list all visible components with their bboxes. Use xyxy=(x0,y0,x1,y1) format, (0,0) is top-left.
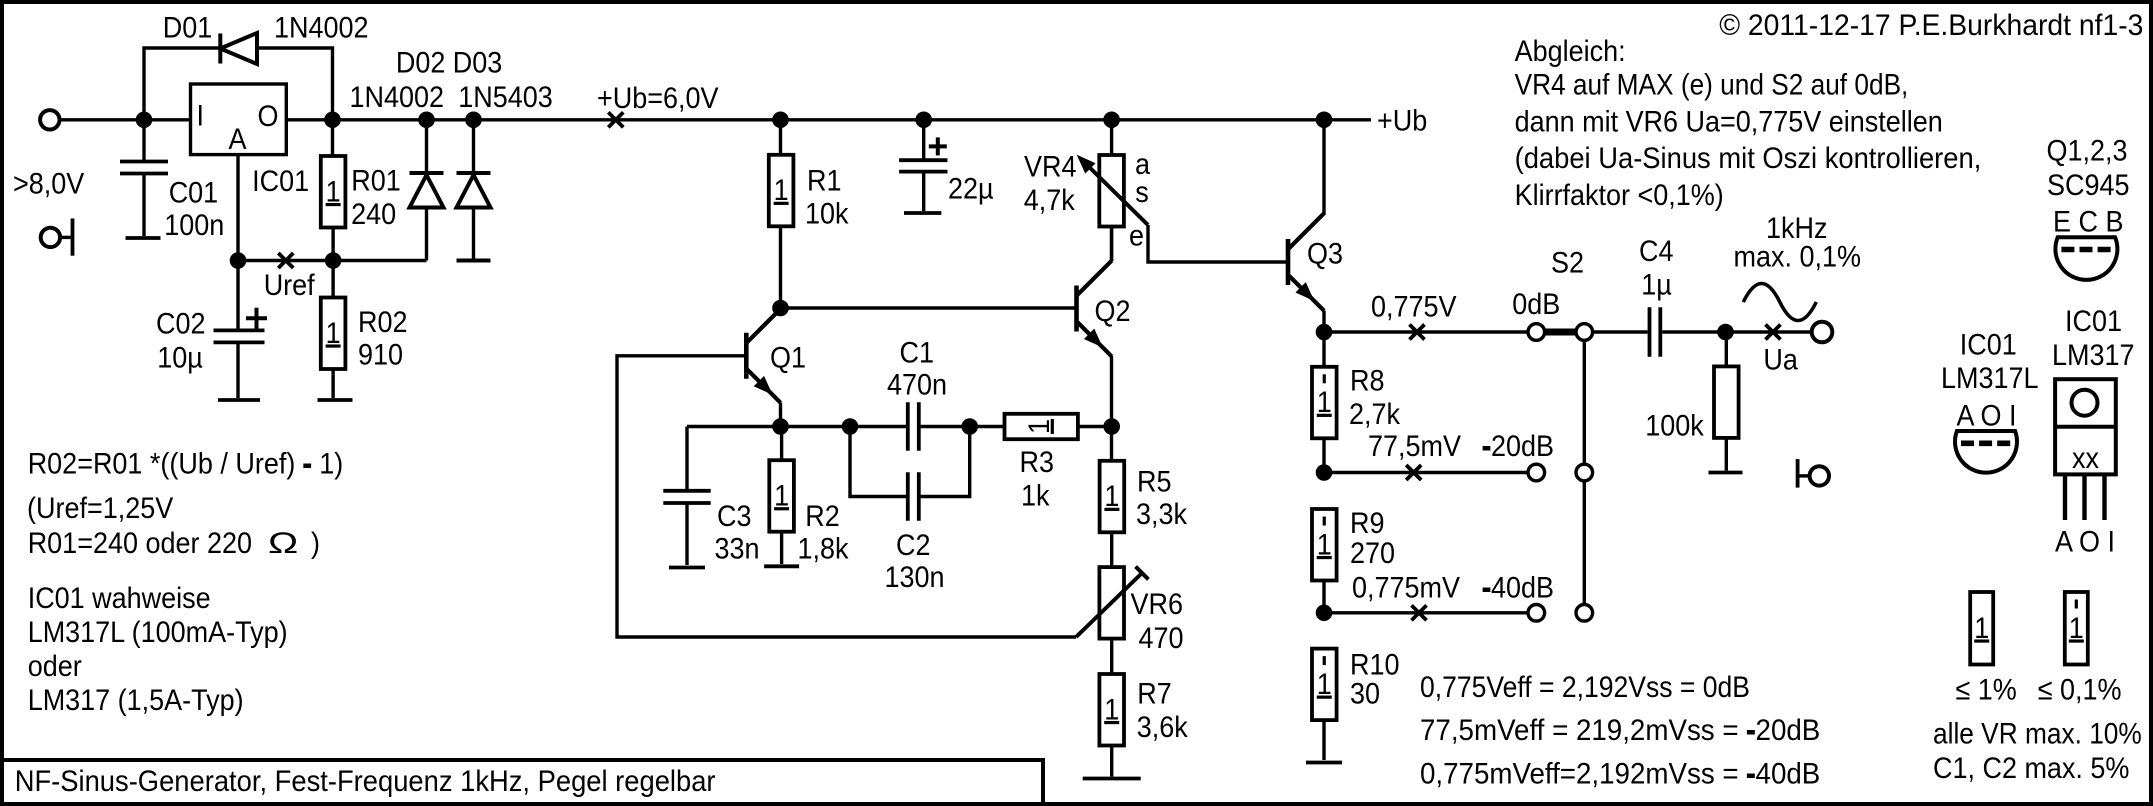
svg-text:R02=R01 *((Ub / Uref) - 1): R02=R01 *((Ub / Uref) - 1) xyxy=(28,447,344,481)
svg-text:2,7k: 2,7k xyxy=(1349,398,1401,432)
svg-text:10µ: 10µ xyxy=(157,341,203,375)
svg-text:0dB: 0dB xyxy=(1512,288,1560,322)
svg-text:Q2: Q2 xyxy=(1095,295,1131,329)
svg-text:Uref: Uref xyxy=(264,269,315,303)
resistor 100k xyxy=(1725,332,1728,366)
svg-text:1k: 1k xyxy=(1021,479,1050,513)
svg-text:VR4 auf MAX (e) und S2 auf 0dB: VR4 auf MAX (e) und S2 auf 0dB, xyxy=(1515,67,1909,101)
svg-text:77,5mV: 77,5mV xyxy=(1368,430,1461,464)
resistor R02 xyxy=(321,298,346,370)
svg-text:(Uref=1,25V: (Uref=1,25V xyxy=(27,492,173,526)
svg-text:Ua: Ua xyxy=(1763,343,1798,377)
svg-text:Q1,2,3: Q1,2,3 xyxy=(2047,134,2128,168)
TO-92 package (Q) xyxy=(2055,237,2117,280)
capacitor C02 xyxy=(236,261,239,330)
capacitor C3 xyxy=(685,427,688,491)
svg-text:D02: D02 xyxy=(396,46,445,80)
node (R1 bottom / Q1 collector) xyxy=(773,300,789,316)
resistor R8 xyxy=(1312,367,1337,439)
svg-text:30: 30 xyxy=(1350,677,1380,711)
svg-text:R02: R02 xyxy=(358,306,407,340)
resistor R1 xyxy=(779,120,782,155)
legend resistor 0,1% xyxy=(2065,592,2088,665)
node xyxy=(1104,112,1120,128)
svg-text:33n: 33n xyxy=(715,532,760,566)
input terminal + xyxy=(40,110,59,129)
svg-text:O: O xyxy=(258,100,279,134)
svg-text:22µ: 22µ xyxy=(948,172,994,206)
node xyxy=(419,112,435,128)
S2 bus xyxy=(1583,332,1586,613)
node xyxy=(325,112,341,128)
wire Uref xyxy=(238,259,427,262)
svg-text:0,775mVeff=2,192mVss = -40dB: 0,775mVeff=2,192mVss = -40dB xyxy=(1420,758,1820,791)
switch S2 xyxy=(1545,329,1576,336)
svg-text:IC01: IC01 xyxy=(1960,328,2017,362)
VR4 wiper arrow xyxy=(1081,159,1148,225)
svg-text:S2: S2 xyxy=(1551,246,1584,280)
svg-text:C1: C1 xyxy=(900,336,934,370)
wire: +Ub rail xyxy=(60,118,1372,121)
svg-text:3,3k: 3,3k xyxy=(1136,498,1188,532)
capacitor C01 xyxy=(142,120,145,162)
measurement point +Ub xyxy=(608,112,623,127)
transistor Q2 xyxy=(1074,286,1079,332)
svg-text:R1: R1 xyxy=(807,164,841,198)
svg-text:dann mit VR6 Ua=0,775V einstel: dann mit VR6 Ua=0,775V einstellen xyxy=(1515,105,1943,139)
svg-text:0,775V: 0,775V xyxy=(1371,290,1457,324)
capacitor C4 xyxy=(1593,330,1648,333)
svg-text:1N5403: 1N5403 xyxy=(458,81,553,115)
svg-text:D01: D01 xyxy=(163,11,212,45)
svg-text:oder: oder xyxy=(28,650,82,684)
svg-text:C3: C3 xyxy=(717,500,751,534)
svg-text:77,5mVeff = 219,2mVss = -20dB: 77,5mVeff = 219,2mVss = -20dB xyxy=(1420,714,1820,747)
wire 77,5mV xyxy=(1324,471,1528,474)
ground (R7) xyxy=(1083,777,1141,781)
svg-text:R9: R9 xyxy=(1350,507,1384,541)
ground (22µ) xyxy=(904,211,941,215)
node -20dB tap xyxy=(1316,465,1332,481)
wire 0,775V xyxy=(1324,330,1528,333)
svg-text:xx: xx xyxy=(2072,442,2099,476)
svg-text:470n: 470n xyxy=(887,368,947,402)
ground (C01) xyxy=(126,236,161,240)
ground (R10) xyxy=(1306,761,1342,765)
output terminal return xyxy=(1810,466,1829,485)
sine symbol 1kHz xyxy=(1743,284,1816,321)
node xyxy=(136,112,152,128)
ground (C3) xyxy=(669,566,705,570)
svg-text:C2: C2 xyxy=(896,529,930,563)
resistor R2 xyxy=(780,427,783,461)
svg-text:VR6: VR6 xyxy=(1131,588,1183,622)
node Q3 emitter xyxy=(1316,324,1332,340)
VR6 wiper xyxy=(1076,573,1142,637)
node xyxy=(466,112,482,128)
resistor R9 xyxy=(1312,509,1337,581)
potentiometer VR4 xyxy=(1110,120,1113,155)
svg-text:R7: R7 xyxy=(1137,677,1171,711)
node R3 right xyxy=(1104,419,1120,435)
resistor R5 xyxy=(1100,461,1125,533)
svg-text:A O I: A O I xyxy=(2055,525,2115,559)
svg-text:100k: 100k xyxy=(1645,409,1704,443)
node -40dB tap xyxy=(1316,605,1332,621)
svg-text:LM317L: LM317L xyxy=(1941,362,2039,396)
transistor Q1 xyxy=(744,333,749,379)
svg-text:1,8k: 1,8k xyxy=(798,532,850,566)
ground (R02) xyxy=(318,398,353,402)
ground (C02) xyxy=(218,398,260,402)
svg-text:IC01: IC01 xyxy=(2065,305,2122,339)
svg-text:R8: R8 xyxy=(1350,364,1384,398)
svg-text:C01: C01 xyxy=(169,176,218,210)
node output xyxy=(1718,324,1734,340)
svg-text:240: 240 xyxy=(351,198,396,232)
resistor R01 xyxy=(331,120,334,156)
node C1/C2 left xyxy=(842,419,858,435)
wire to Ua xyxy=(1726,330,1813,333)
svg-text:I: I xyxy=(197,99,205,133)
svg-text:s: s xyxy=(1135,176,1148,210)
svg-text:910: 910 xyxy=(358,338,403,372)
svg-text:1N4002: 1N4002 xyxy=(274,11,369,45)
node Q1 emitter xyxy=(773,419,789,435)
measurement point Uref xyxy=(278,253,293,268)
svg-text:4,7k: 4,7k xyxy=(1024,184,1076,218)
svg-text:-20dB: -20dB xyxy=(1482,430,1554,464)
potentiometer VR6 xyxy=(1110,532,1113,567)
ground (R2) xyxy=(764,564,799,568)
transistor Q3 xyxy=(1286,239,1291,285)
svg-text:>8,0V: >8,0V xyxy=(13,167,84,201)
svg-text:Klirrfaktor <0,1%): Klirrfaktor <0,1%) xyxy=(1515,179,1724,213)
resistor R10 xyxy=(1312,649,1337,721)
diode D01 xyxy=(218,34,222,64)
svg-text:Ω: Ω xyxy=(268,526,298,560)
svg-text:R01=240 oder 220: R01=240 oder 220 xyxy=(28,527,252,561)
svg-text:Abgleich:: Abgleich: xyxy=(1515,35,1626,69)
svg-text:Q1: Q1 xyxy=(770,341,806,375)
svg-text:R5: R5 xyxy=(1137,465,1171,499)
svg-text:C02: C02 xyxy=(156,307,205,341)
diode D03 xyxy=(472,120,475,173)
node xyxy=(773,112,789,128)
svg-text:R2: R2 xyxy=(805,500,839,534)
svg-text:-40dB: -40dB xyxy=(1482,571,1554,605)
svg-text:IC01: IC01 xyxy=(252,165,309,199)
svg-text:SC945: SC945 xyxy=(2047,169,2129,203)
diode D02 xyxy=(425,120,428,173)
svg-text:10k: 10k xyxy=(805,197,849,231)
svg-text:1N4002: 1N4002 xyxy=(350,81,445,115)
node R01/Uref xyxy=(325,253,341,269)
output terminal Ua xyxy=(1812,322,1833,343)
svg-text:R3: R3 xyxy=(1020,446,1054,480)
title box xyxy=(2,760,1043,804)
svg-text:130n: 130n xyxy=(885,561,945,595)
ground (100k) xyxy=(1709,471,1743,475)
svg-text:D03: D03 xyxy=(453,46,502,80)
svg-text:1µ: 1µ xyxy=(1641,268,1672,302)
svg-text:≤ 0,1%: ≤ 0,1% xyxy=(2038,673,2122,707)
svg-text:0,775Veff = 2,192Vss = 0dB: 0,775Veff = 2,192Vss = 0dB xyxy=(1420,671,1750,705)
resistor R3 xyxy=(1005,414,1078,439)
svg-text:C1, C2 max. 5%: C1, C2 max. 5% xyxy=(1933,752,2129,786)
wire D01 loop xyxy=(144,48,333,120)
node xyxy=(1316,112,1332,128)
TO-92 package (LM317L) xyxy=(1955,431,2017,473)
svg-text:VR4: VR4 xyxy=(1024,150,1077,184)
svg-text:IC01 wahweise: IC01 wahweise xyxy=(28,582,211,616)
input terminal return xyxy=(41,228,60,247)
svg-text:): ) xyxy=(311,527,320,561)
capacitor 22µ xyxy=(922,120,925,160)
wire Q1 base feedback xyxy=(617,356,1076,637)
legend resistor 1% xyxy=(1970,592,1993,665)
svg-text:+Ub=6,0V: +Ub=6,0V xyxy=(597,82,718,116)
svg-text:C4: C4 xyxy=(1639,235,1674,269)
wire A pin xyxy=(236,155,239,261)
svg-text:100n: 100n xyxy=(164,209,224,243)
svg-text:NF-Sinus-Generator, Fest-Frequ: NF-Sinus-Generator, Fest-Frequenz 1kHz, … xyxy=(15,765,716,798)
capacitor C2 xyxy=(850,427,908,497)
capacitor C1 xyxy=(906,402,910,451)
TO-220 package (LM317) xyxy=(2055,379,2116,474)
svg-text:470: 470 xyxy=(1139,622,1184,656)
node Uref-A xyxy=(230,253,246,269)
svg-text:(dabei Ua-Sinus mit Oszi kontr: (dabei Ua-Sinus mit Oszi kontrollieren, xyxy=(1515,142,1982,175)
svg-text:0,775mV: 0,775mV xyxy=(1352,571,1460,605)
wire 0,775mV xyxy=(1324,611,1528,614)
svg-text:alle VR max. 10%: alle VR max. 10% xyxy=(1933,716,2142,750)
svg-text:LM317 (1,5A-Typ): LM317 (1,5A-Typ) xyxy=(28,684,244,718)
svg-text:E C B: E C B xyxy=(2053,205,2123,239)
svg-text:≤ 1%: ≤ 1% xyxy=(1956,673,2017,707)
svg-text:LM317: LM317 xyxy=(2052,339,2134,373)
node xyxy=(916,112,932,128)
svg-text:max. 0,1%: max. 0,1% xyxy=(1734,240,1861,274)
svg-text:270: 270 xyxy=(1350,537,1395,571)
svg-text:© 2011-12-17 P.E.Burkhardt nf1: © 2011-12-17 P.E.Burkhardt nf1-3 xyxy=(1719,9,2143,42)
wire Q2 base xyxy=(781,306,1077,309)
resistor R7 xyxy=(1099,674,1124,746)
svg-text:A: A xyxy=(229,123,247,157)
node C1/C2 right xyxy=(962,419,978,435)
wire emitter line xyxy=(687,425,908,428)
svg-text:e: e xyxy=(1129,219,1144,253)
svg-text:Q3: Q3 xyxy=(1307,237,1343,271)
svg-text:+Ub: +Ub xyxy=(1377,104,1427,138)
op-amp/regulator IC01 box xyxy=(191,84,287,155)
svg-text:R01: R01 xyxy=(351,164,400,198)
svg-text:LM317L (100mA-Typ): LM317L (100mA-Typ) xyxy=(28,616,288,650)
svg-text:3,6k: 3,6k xyxy=(1137,711,1189,745)
svg-text:A O I: A O I xyxy=(1957,399,2017,433)
